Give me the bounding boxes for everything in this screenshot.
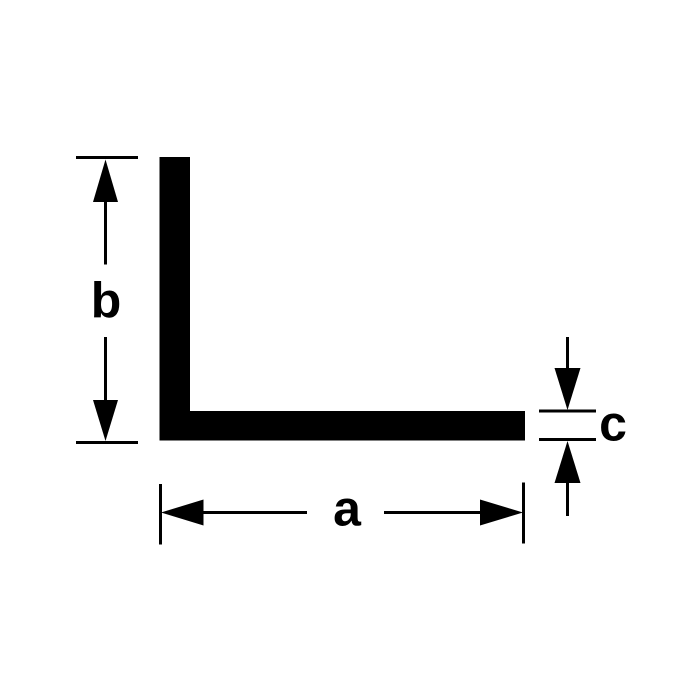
svg-text:a: a xyxy=(333,481,362,537)
svg-text:b: b xyxy=(91,273,122,329)
svg-text:c: c xyxy=(599,396,627,452)
